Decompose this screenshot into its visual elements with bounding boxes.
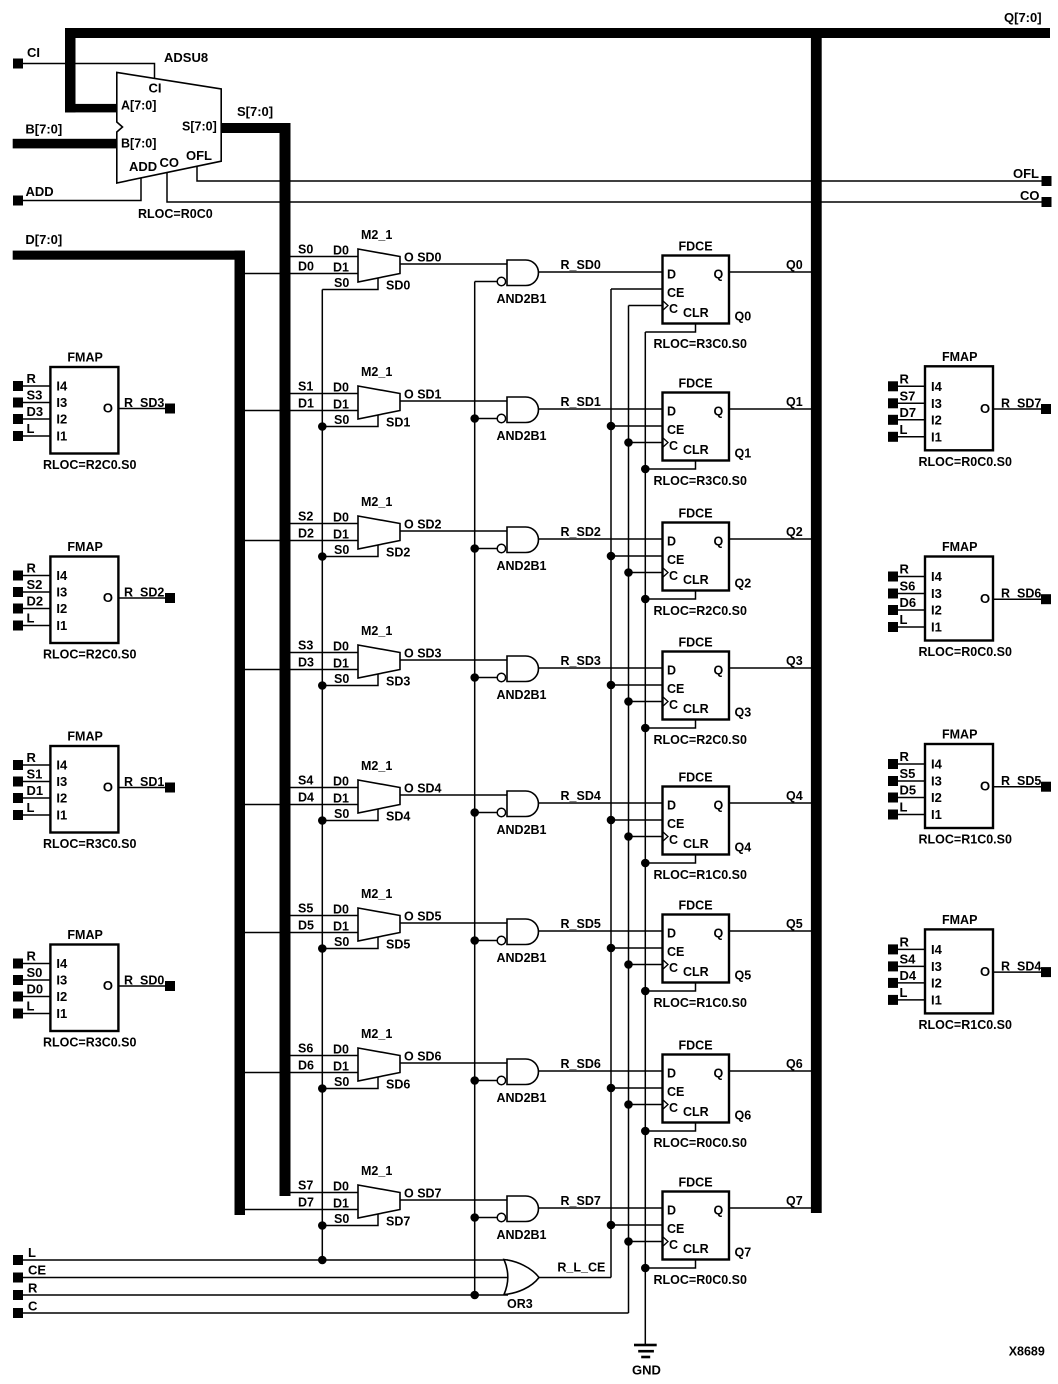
svg-text:AND2B1: AND2B1 — [497, 429, 547, 443]
svg-text:RLOC=R1C0.S0: RLOC=R1C0.S0 — [654, 868, 747, 882]
svg-text:Q1: Q1 — [735, 447, 752, 461]
svg-text:CE: CE — [667, 682, 684, 696]
svg-text:S[7:0]: S[7:0] — [237, 104, 273, 119]
svg-text:R_SD4: R_SD4 — [1001, 960, 1041, 974]
svg-text:RLOC=R2C0.S0: RLOC=R2C0.S0 — [654, 733, 747, 747]
svg-text:Q4: Q4 — [786, 789, 803, 803]
and-gate AND2B1 row 4 — [475, 791, 547, 837]
svg-text:SD1: SD1 — [386, 416, 410, 430]
wire rail CLR to GND (x=645.3) — [644, 332, 646, 1345]
wire FDCE CE input row 2 — [611, 555, 663, 557]
wire FDCE CE input row 7 — [611, 1224, 663, 1226]
svg-text:S6: S6 — [298, 1042, 313, 1056]
svg-text:I4: I4 — [931, 942, 943, 957]
wire Q4 output to Q bus — [729, 789, 811, 803]
wire rail R_L_CE to FDCE CE pins (x=611) — [610, 289, 612, 1278]
svg-text:RLOC=R3C0.S0: RLOC=R3C0.S0 — [43, 837, 136, 851]
svg-text:CE: CE — [667, 1085, 684, 1099]
svg-text:D1: D1 — [333, 1197, 349, 1211]
svg-text:I2: I2 — [56, 791, 67, 806]
svg-text:L: L — [900, 422, 908, 437]
svg-text:D4: D4 — [900, 968, 917, 983]
svg-text:RLOC=R2C0.S0: RLOC=R2C0.S0 — [43, 648, 136, 662]
svg-text:I3: I3 — [931, 774, 942, 789]
svg-text:D2: D2 — [27, 594, 44, 609]
svg-text:M2_1: M2_1 — [361, 887, 392, 901]
wire FDCE CLR to clr rail row 0 — [645, 324, 695, 333]
svg-text:CO: CO — [1020, 188, 1040, 203]
svg-text:FMAP: FMAP — [942, 540, 977, 554]
svg-text:C: C — [669, 302, 678, 316]
junction dot R wire to AND rail — [470, 1291, 479, 1300]
svg-text:I1: I1 — [931, 429, 942, 444]
wire FDCE CLR to clr rail row 3 — [645, 720, 695, 729]
svg-text:AND2B1: AND2B1 — [497, 1228, 547, 1242]
svg-text:RLOC=R1C0.S0: RLOC=R1C0.S0 — [654, 996, 747, 1010]
svg-text:Q: Q — [714, 1067, 724, 1081]
wire mux output O SD3 to AND2B1 row 3 — [400, 659, 507, 661]
svg-text:O SD2: O SD2 — [404, 518, 442, 532]
svg-text:R_SD6: R_SD6 — [1001, 587, 1041, 601]
svg-text:SD5: SD5 — [386, 938, 410, 952]
svg-text:S7: S7 — [900, 388, 916, 403]
svg-text:D0: D0 — [333, 1180, 349, 1194]
svg-text:CE: CE — [667, 553, 684, 567]
svg-text:FDCE: FDCE — [679, 507, 713, 521]
svg-text:R_SD5: R_SD5 — [561, 917, 601, 931]
fmap FMAP (left, R_SD1) — [13, 730, 175, 852]
svg-text:R_L_CE: R_L_CE — [557, 1261, 605, 1275]
svg-text:M2_1: M2_1 — [361, 228, 392, 242]
svg-text:D6: D6 — [298, 1059, 314, 1073]
wire FDCE C clock input row 6 — [629, 1104, 663, 1106]
svg-text:Q0: Q0 — [735, 310, 752, 324]
wire FDCE CLR to clr rail row 4 — [645, 855, 695, 864]
svg-text:I1: I1 — [56, 429, 67, 444]
terminal C with wire to clock rail — [13, 1298, 629, 1318]
svg-text:O SD1: O SD1 — [404, 388, 442, 402]
and-gate AND2B1 row 3 — [475, 656, 547, 702]
junction dots row 2 on rails — [318, 544, 650, 603]
junction dots row 3 on rails — [318, 673, 650, 732]
svg-text:I3: I3 — [56, 585, 67, 600]
svg-text:FMAP: FMAP — [942, 913, 977, 927]
svg-text:S0: S0 — [27, 965, 43, 980]
wire R_L_CE from OR3 to CE rail — [539, 1261, 611, 1278]
fmap FMAP (right, R_SD6) — [888, 540, 1051, 659]
flip-flop FDCE row 5 (Q5) — [654, 899, 752, 1011]
wire rail L to mux selects (x=322) — [321, 290, 323, 1261]
svg-text:Q7: Q7 — [735, 1246, 752, 1260]
and-gate AND2B1 row 0 — [475, 260, 547, 306]
svg-text:R: R — [27, 371, 37, 386]
svg-text:D7: D7 — [298, 1196, 314, 1210]
wire Q0 output to Q bus — [729, 258, 811, 272]
svg-text:OR3: OR3 — [507, 1297, 533, 1311]
svg-text:S0: S0 — [334, 276, 349, 290]
svg-text:S0: S0 — [334, 413, 349, 427]
svg-text:D5: D5 — [298, 919, 314, 933]
or-gate OR3 — [504, 1260, 539, 1312]
svg-text:I4: I4 — [56, 379, 68, 394]
wire FDCE CE input row 3 — [611, 684, 663, 686]
svg-text:M2_1: M2_1 — [361, 495, 392, 509]
and-gate AND2B1 row 2 — [475, 527, 547, 573]
svg-text:CLR: CLR — [683, 965, 709, 979]
svg-text:R: R — [900, 749, 910, 764]
svg-text:S6: S6 — [900, 579, 916, 594]
svg-text:I3: I3 — [931, 586, 942, 601]
svg-text:X8689: X8689 — [1009, 1345, 1045, 1359]
svg-text:GND: GND — [632, 1363, 661, 1378]
svg-text:Q3: Q3 — [735, 706, 752, 720]
svg-text:O: O — [980, 779, 990, 794]
flip-flop FDCE row 3 (Q3) — [654, 636, 752, 748]
wire Q2 output to Q bus — [729, 525, 811, 539]
svg-text:D1: D1 — [333, 528, 349, 542]
svg-text:SD3: SD3 — [386, 675, 410, 689]
svg-text:D1: D1 — [333, 398, 349, 412]
svg-text:FMAP: FMAP — [67, 540, 102, 554]
svg-text:O: O — [103, 978, 113, 993]
svg-text:L: L — [27, 611, 35, 626]
and-gate AND2B1 row 7 — [475, 1196, 547, 1242]
svg-text:B[7:0]: B[7:0] — [25, 122, 62, 137]
svg-text:D0: D0 — [333, 1043, 349, 1057]
svg-text:S[7:0]: S[7:0] — [182, 120, 217, 134]
svg-text:I3: I3 — [56, 395, 67, 410]
svg-text:O SD4: O SD4 — [404, 782, 442, 796]
svg-text:SD7: SD7 — [386, 1215, 410, 1229]
wire FDCE C clock input row 7 — [629, 1241, 663, 1243]
svg-text:Q: Q — [714, 405, 724, 419]
wire mux output O SD7 to AND2B1 row 7 — [400, 1199, 507, 1201]
svg-text:R_SD5: R_SD5 — [1001, 774, 1041, 788]
svg-text:A[7:0]: A[7:0] — [121, 99, 156, 113]
svg-text:D: D — [667, 664, 676, 678]
and-gate AND2B1 row 1 — [475, 397, 547, 443]
svg-text:I2: I2 — [56, 601, 67, 616]
fmap FMAP (right, R_SD7) — [888, 350, 1051, 469]
svg-text:I2: I2 — [931, 790, 942, 805]
svg-text:L: L — [900, 612, 908, 627]
svg-text:L: L — [27, 421, 35, 436]
svg-text:D0: D0 — [27, 982, 44, 997]
svg-text:R_SD3: R_SD3 — [124, 396, 164, 410]
svg-text:D1: D1 — [333, 792, 349, 806]
svg-text:D0: D0 — [333, 381, 349, 395]
svg-text:AND2B1: AND2B1 — [497, 688, 547, 702]
mux M2_1 row 5 (SD5) — [245, 887, 442, 952]
svg-text:D: D — [667, 1204, 676, 1218]
wire mux output O SD0 to AND2B1 row 0 — [400, 263, 507, 265]
fmap FMAP (right, R_SD4) — [888, 913, 1051, 1032]
svg-text:FMAP: FMAP — [67, 351, 102, 365]
svg-text:S7: S7 — [298, 1179, 313, 1193]
wire OFL output to terminal — [197, 166, 1052, 186]
svg-text:R_SD1: R_SD1 — [124, 775, 164, 789]
wire FDCE C clock input row 3 — [629, 701, 663, 703]
svg-text:M2_1: M2_1 — [361, 365, 392, 379]
svg-text:R: R — [28, 1281, 38, 1296]
svg-text:D4: D4 — [298, 791, 314, 805]
svg-text:S0: S0 — [298, 243, 313, 257]
wire FDCE C clock input row 4 — [629, 836, 663, 838]
svg-text:FMAP: FMAP — [942, 728, 977, 742]
svg-text:L: L — [27, 800, 35, 815]
svg-text:S5: S5 — [900, 766, 916, 781]
wire FDCE CE input row 0 — [611, 288, 663, 290]
and-gate AND2B1 row 5 — [475, 919, 547, 965]
svg-text:D: D — [667, 927, 676, 941]
svg-text:Q: Q — [714, 1204, 724, 1218]
svg-text:S3: S3 — [298, 639, 313, 653]
svg-text:S0: S0 — [334, 543, 349, 557]
junction dots row 4 on rails — [318, 808, 650, 867]
mux M2_1 row 3 (SD3) — [245, 624, 442, 689]
svg-text:D1: D1 — [27, 783, 44, 798]
svg-text:Q: Q — [714, 664, 724, 678]
svg-text:R_SD6: R_SD6 — [561, 1057, 601, 1071]
svg-text:O: O — [103, 401, 113, 416]
svg-text:M2_1: M2_1 — [361, 759, 392, 773]
svg-text:CE: CE — [28, 1262, 46, 1277]
wire R_SD2 from AND2B1 to FDCE D — [538, 525, 662, 539]
svg-text:S0: S0 — [334, 1212, 349, 1226]
svg-text:I4: I4 — [56, 956, 68, 971]
svg-text:D0: D0 — [333, 640, 349, 654]
svg-text:I2: I2 — [56, 412, 67, 427]
svg-text:O: O — [980, 964, 990, 979]
svg-text:Q5: Q5 — [786, 917, 803, 931]
svg-text:R: R — [27, 750, 37, 765]
svg-text:R: R — [900, 371, 910, 386]
svg-text:Q: Q — [714, 535, 724, 549]
svg-text:Q7: Q7 — [786, 1194, 803, 1208]
wire FDCE CE input row 6 — [611, 1087, 663, 1089]
svg-text:D: D — [667, 405, 676, 419]
svg-text:I4: I4 — [56, 758, 68, 773]
svg-text:D3: D3 — [298, 656, 314, 670]
flip-flop FDCE row 7 (Q7) — [654, 1176, 752, 1288]
svg-text:L: L — [900, 985, 908, 1000]
svg-text:S0: S0 — [334, 935, 349, 949]
svg-text:FDCE: FDCE — [679, 1039, 713, 1053]
svg-text:RLOC=R3C0.S0: RLOC=R3C0.S0 — [654, 337, 747, 351]
svg-text:Q2: Q2 — [786, 525, 803, 539]
svg-text:Q: Q — [714, 927, 724, 941]
fmap FMAP (left, R_SD0) — [13, 928, 175, 1050]
wire mux output O SD2 to AND2B1 row 2 — [400, 530, 507, 532]
svg-text:M2_1: M2_1 — [361, 1027, 392, 1041]
svg-text:S0: S0 — [334, 1075, 349, 1089]
svg-text:FDCE: FDCE — [679, 771, 713, 785]
svg-text:CE: CE — [667, 945, 684, 959]
svg-text:CI: CI — [27, 45, 40, 60]
svg-text:M2_1: M2_1 — [361, 1164, 392, 1178]
svg-text:D: D — [667, 535, 676, 549]
fmap FMAP (left, R_SD3) — [13, 351, 175, 473]
svg-text:FMAP: FMAP — [67, 928, 102, 942]
svg-text:I1: I1 — [931, 620, 942, 635]
svg-text:S4: S4 — [900, 951, 917, 966]
svg-text:L: L — [28, 1245, 36, 1260]
svg-text:D6: D6 — [900, 595, 917, 610]
svg-text:RLOC=R0C0.S0: RLOC=R0C0.S0 — [919, 645, 1012, 659]
svg-text:S0: S0 — [334, 672, 349, 686]
svg-text:C: C — [669, 439, 678, 453]
junction dots row 5 on rails — [318, 936, 650, 995]
mux M2_1 row 2 (SD2) — [245, 495, 442, 560]
svg-text:Q6: Q6 — [735, 1109, 752, 1123]
svg-text:FDCE: FDCE — [679, 636, 713, 650]
svg-text:D0: D0 — [298, 260, 314, 274]
svg-text:RLOC=R2C0.S0: RLOC=R2C0.S0 — [654, 604, 747, 618]
junction dot L wire to select rail — [318, 1256, 327, 1265]
svg-text:Q[7:0]: Q[7:0] — [1004, 10, 1042, 25]
svg-text:S1: S1 — [298, 380, 313, 394]
svg-text:SD2: SD2 — [386, 546, 410, 560]
svg-text:ADD: ADD — [129, 159, 157, 174]
bus B[7:0] input — [13, 122, 119, 149]
wire R_SD0 from AND2B1 to FDCE D — [538, 258, 662, 272]
svg-text:I4: I4 — [931, 569, 943, 584]
junction dots row 1 on rails — [318, 414, 650, 473]
wire R_SD4 from AND2B1 to FDCE D — [538, 789, 662, 803]
svg-text:D0: D0 — [333, 903, 349, 917]
svg-text:RLOC=R0C0.S0: RLOC=R0C0.S0 — [654, 1136, 747, 1150]
svg-text:R_SD4: R_SD4 — [561, 789, 601, 803]
wire rail C clock to FDCE C pins (x=628.5) — [628, 306, 630, 1314]
svg-text:C: C — [669, 833, 678, 847]
svg-text:SD6: SD6 — [386, 1078, 410, 1092]
svg-text:I4: I4 — [56, 568, 68, 583]
mux M2_1 row 6 (SD6) — [245, 1027, 442, 1092]
svg-text:S0: S0 — [334, 807, 349, 821]
svg-text:D1: D1 — [333, 261, 349, 275]
flip-flop FDCE row 0 (Q0) — [654, 240, 752, 352]
svg-text:C: C — [669, 569, 678, 583]
svg-text:R: R — [27, 561, 37, 576]
svg-text:D0: D0 — [333, 775, 349, 789]
svg-text:O SD0: O SD0 — [404, 251, 442, 265]
svg-text:R_SD2: R_SD2 — [124, 586, 164, 600]
svg-text:R: R — [900, 562, 910, 577]
svg-text:FDCE: FDCE — [679, 1176, 713, 1190]
bus A[7:0] feedback into ADSU8 — [65, 28, 118, 112]
svg-text:R_SD0: R_SD0 — [124, 974, 164, 988]
mux M2_1 row 7 (SD7) — [245, 1164, 442, 1229]
and-gate AND2B1 row 6 — [475, 1059, 547, 1105]
svg-text:S5: S5 — [298, 902, 313, 916]
svg-text:S2: S2 — [27, 577, 43, 592]
wire R_SD7 from AND2B1 to FDCE D — [538, 1194, 662, 1208]
ground GND symbol — [632, 1344, 661, 1378]
svg-text:I2: I2 — [931, 412, 942, 427]
svg-text:CLR: CLR — [683, 1105, 709, 1119]
svg-text:CLR: CLR — [683, 573, 709, 587]
terminal R with wire — [13, 1281, 508, 1300]
fmap FMAP (left, R_SD2) — [13, 540, 175, 662]
terminal ADD with wire to ADSU8 ADD pin — [13, 178, 141, 206]
svg-text:I1: I1 — [931, 807, 942, 822]
wire mux output O SD4 to AND2B1 row 4 — [400, 794, 507, 796]
svg-text:Q0: Q0 — [786, 258, 803, 272]
svg-text:ADD: ADD — [26, 184, 54, 199]
svg-text:B[7:0]: B[7:0] — [121, 137, 156, 151]
svg-text:I2: I2 — [931, 603, 942, 618]
svg-text:S4: S4 — [298, 774, 313, 788]
wire Q6 output to Q bus — [729, 1057, 811, 1071]
svg-text:D[7:0]: D[7:0] — [25, 232, 62, 247]
svg-text:O SD6: O SD6 — [404, 1050, 442, 1064]
flip-flop FDCE row 4 (Q4) — [654, 771, 752, 883]
svg-text:FDCE: FDCE — [679, 240, 713, 254]
wire FDCE CE input row 4 — [611, 819, 663, 821]
svg-text:CO: CO — [160, 155, 180, 170]
svg-text:O: O — [980, 591, 990, 606]
svg-text:RLOC=R1C0.S0: RLOC=R1C0.S0 — [919, 1018, 1012, 1032]
svg-text:CE: CE — [667, 286, 684, 300]
svg-text:D1: D1 — [298, 397, 314, 411]
wire FDCE C clock input row 0 — [629, 305, 663, 307]
terminal L with wire — [13, 1245, 508, 1265]
svg-text:CI: CI — [149, 81, 162, 96]
svg-text:I1: I1 — [56, 618, 67, 633]
svg-text:I4: I4 — [931, 757, 943, 772]
svg-text:D2: D2 — [298, 527, 314, 541]
svg-text:S2: S2 — [298, 510, 313, 524]
svg-text:FDCE: FDCE — [679, 899, 713, 913]
svg-text:AND2B1: AND2B1 — [497, 292, 547, 306]
bus Q[7:0] top horizontal — [65, 10, 1050, 38]
svg-text:O: O — [980, 401, 990, 416]
flip-flop FDCE row 1 (Q1) — [654, 377, 752, 489]
bus D[7:0] input — [13, 232, 245, 1215]
svg-text:S1: S1 — [27, 767, 43, 782]
wire FDCE CLR to clr rail row 7 — [645, 1260, 695, 1269]
wire FDCE CLR to clr rail row 6 — [645, 1123, 695, 1132]
svg-text:Q6: Q6 — [786, 1057, 803, 1071]
svg-text:R: R — [900, 934, 910, 949]
wire mux output O SD6 to AND2B1 row 6 — [400, 1062, 507, 1064]
svg-text:D1: D1 — [333, 1060, 349, 1074]
wire FDCE CE input row 1 — [611, 425, 663, 427]
svg-text:RLOC=R0C0.S0: RLOC=R0C0.S0 — [919, 455, 1012, 469]
mux M2_1 row 0 (SD0) — [245, 228, 442, 293]
svg-text:Q1: Q1 — [786, 395, 803, 409]
svg-text:AND2B1: AND2B1 — [497, 559, 547, 573]
svg-text:I3: I3 — [931, 959, 942, 974]
svg-text:CLR: CLR — [683, 1242, 709, 1256]
wire mux output O SD5 to AND2B1 row 5 — [400, 922, 507, 924]
wire FDCE CLR to clr rail row 5 — [645, 983, 695, 992]
bus S[7:0] from ADSU8 — [220, 104, 291, 1196]
svg-text:CE: CE — [667, 817, 684, 831]
svg-text:C: C — [669, 698, 678, 712]
svg-text:D5: D5 — [900, 783, 917, 798]
svg-text:I3: I3 — [931, 396, 942, 411]
svg-text:CLR: CLR — [683, 443, 709, 457]
svg-text:CLR: CLR — [683, 306, 709, 320]
svg-text:CE: CE — [667, 1222, 684, 1236]
svg-text:I3: I3 — [56, 973, 67, 988]
svg-text:R: R — [27, 949, 37, 964]
svg-text:I1: I1 — [56, 808, 67, 823]
wire FDCE C clock input row 1 — [629, 442, 663, 444]
wire Q5 output to Q bus — [729, 917, 811, 931]
svg-text:AND2B1: AND2B1 — [497, 1091, 547, 1105]
